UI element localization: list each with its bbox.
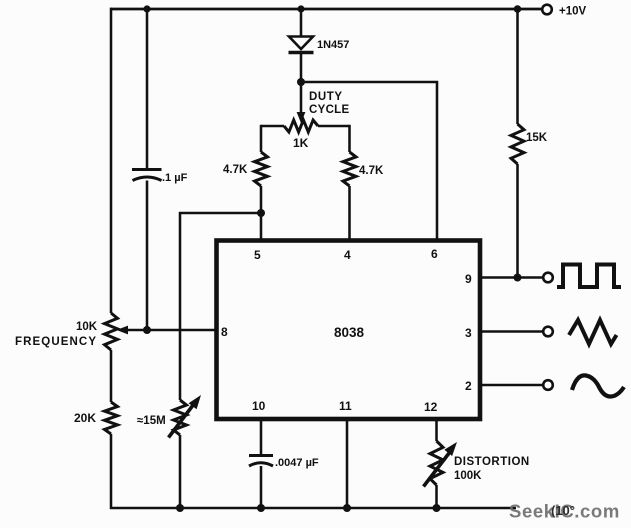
resistor R3 4.7K (left) bbox=[255, 152, 268, 186]
triangle wave symbol bbox=[569, 320, 617, 344]
wire C2 to ground rail bbox=[260, 466, 263, 508]
wire pin 9 output bbox=[479, 276, 542, 279]
wire 15K branch from top rail bbox=[516, 9, 519, 124]
svg-text:100K: 100K bbox=[454, 470, 482, 482]
wire left rail between 10K and 20K bbox=[110, 350, 113, 402]
wire duty node to pin 6 (right then down) bbox=[301, 82, 437, 239]
node junction pin-11 / ground rail bbox=[343, 504, 351, 512]
node duty-cycle junction bbox=[297, 78, 305, 86]
wire pin 2 output bbox=[479, 384, 542, 387]
svg-text:10: 10 bbox=[252, 399, 266, 413]
node junction top rail / 15K branch bbox=[514, 5, 522, 13]
svg-text:4: 4 bbox=[344, 248, 351, 262]
wire pin 11 to ground rail bbox=[346, 419, 349, 508]
svg-text:9: 9 bbox=[465, 272, 472, 286]
wire pin 12 to distortion pot bbox=[435, 419, 438, 441]
wire diode cathode to duty node bbox=[300, 53, 303, 82]
svg-text:11: 11 bbox=[339, 399, 352, 413]
svg-text:DISTORTION: DISTORTION bbox=[454, 456, 530, 468]
svg-text:12: 12 bbox=[424, 400, 438, 414]
svg-text:1N457: 1N457 bbox=[317, 39, 349, 51]
svg-text:4.7K: 4.7K bbox=[223, 164, 248, 176]
terminal pin 3 output bbox=[543, 327, 553, 337]
node junction top rail / C1 branch bbox=[143, 5, 150, 12]
wire diode branch from top rail bbox=[300, 9, 303, 37]
terminal +10V supply bbox=[542, 5, 552, 15]
wire 15M bottom to ground rail bbox=[179, 435, 182, 508]
node junction pin-10 / ground rail bbox=[257, 504, 265, 512]
svg-text:≈15M: ≈15M bbox=[137, 415, 166, 427]
node junction 15M / ground rail bbox=[176, 504, 184, 512]
wire pin 10 to ground rail (upper) bbox=[260, 419, 263, 456]
wire capacitor C1 branch upper bbox=[146, 9, 149, 169]
svg-text:CYCLE: CYCLE bbox=[309, 104, 350, 116]
capacitor C2 .0047uF plates bbox=[249, 456, 273, 467]
svg-text:20K: 20K bbox=[74, 411, 96, 425]
svg-text:(10°: (10° bbox=[551, 503, 575, 518]
wire 1K left end down to R3 bbox=[260, 125, 263, 152]
wire distortion pot to ground rail bbox=[435, 485, 438, 508]
svg-text:4.7K: 4.7K bbox=[359, 165, 384, 177]
resistor R4 4.7K (right) bbox=[343, 152, 356, 186]
potentiometer R2 1K body bbox=[261, 120, 350, 132]
wire pin 3 output bbox=[479, 330, 542, 333]
svg-text:5: 5 bbox=[254, 248, 261, 262]
node junction 15K / pin-9 wire bbox=[514, 274, 522, 282]
wire bottom ground rail bbox=[110, 507, 516, 510]
svg-text:2: 2 bbox=[465, 379, 472, 393]
wire capacitor C1 branch lower bbox=[146, 181, 149, 331]
svg-text:.1 µF: .1 µF bbox=[162, 172, 188, 184]
wire left outer rail (top segment) bbox=[110, 8, 113, 313]
node junction pin-5 branch / 15M branch bbox=[257, 209, 265, 217]
capacitor C1 .1uF plates bbox=[132, 170, 162, 181]
rheostat R7 DISTORTION 100K body bbox=[430, 441, 443, 485]
wire R4 bottom to pin 4 bbox=[348, 186, 351, 239]
terminal pin 2 output bbox=[543, 380, 553, 390]
svg-text:FREQUENCY: FREQUENCY bbox=[15, 336, 97, 348]
svg-text:+10V: +10V bbox=[559, 6, 587, 18]
svg-text:.0047 µF: .0047 µF bbox=[275, 457, 319, 469]
label DUTY CYCLE bbox=[309, 91, 350, 116]
resistor 20K body bbox=[105, 402, 118, 434]
IC U1 8038 outline bbox=[217, 241, 481, 420]
rheostat R7 arrow bbox=[424, 442, 458, 487]
potentiometer R_freq 10K body bbox=[105, 313, 118, 350]
node junction C1 branch / pin-8 wire bbox=[143, 326, 151, 334]
rheostat R5 ~15M body bbox=[174, 400, 187, 435]
svg-text:8: 8 bbox=[221, 325, 228, 339]
node junction pin-12 / ground rail bbox=[433, 504, 441, 512]
node junction top rail / diode branch bbox=[297, 5, 304, 12]
sine wave symbol bbox=[572, 375, 624, 396]
svg-text:15K: 15K bbox=[526, 132, 548, 144]
wire junction to 15M branch (left then down) bbox=[180, 213, 261, 400]
wire wiper of R2 1K (from duty node, arrow down) bbox=[297, 82, 306, 123]
terminal pin 9 output bbox=[543, 273, 553, 283]
wire 15K to pin 9 line bbox=[516, 164, 519, 278]
svg-text:1K: 1K bbox=[293, 136, 309, 150]
wire pot wiper to pin 8 bbox=[117, 326, 216, 335]
svg-text:DUTY: DUTY bbox=[309, 91, 343, 103]
wire R3 bottom to pin 5 bbox=[260, 186, 263, 239]
wire top supply rail bbox=[110, 8, 541, 11]
diode D1 1N457 bbox=[289, 37, 314, 53]
wire 1K right end down to R4 bbox=[348, 125, 351, 152]
square wave symbol bbox=[557, 265, 621, 288]
svg-text:3: 3 bbox=[465, 326, 472, 340]
rheostat R5 arrow bbox=[169, 395, 202, 438]
wire left rail bottom segment bbox=[110, 434, 113, 509]
resistor R6 15K bbox=[511, 124, 524, 164]
svg-text:6: 6 bbox=[431, 247, 438, 261]
svg-text:8038: 8038 bbox=[334, 325, 365, 340]
svg-text:10K: 10K bbox=[76, 321, 98, 333]
